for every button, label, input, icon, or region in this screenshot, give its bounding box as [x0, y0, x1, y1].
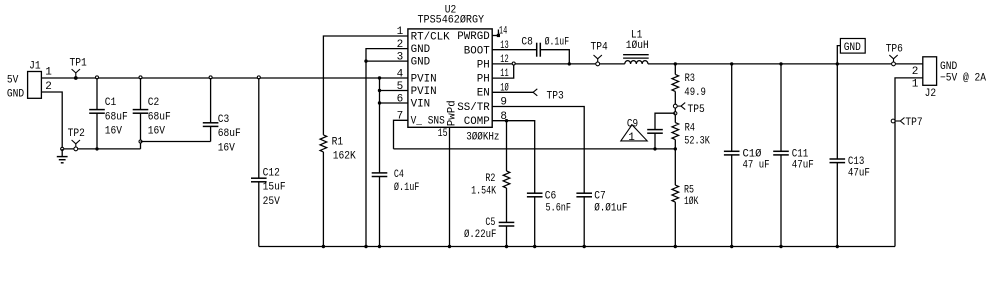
svg-text:5V: 5V [7, 74, 19, 86]
junction COMP-R2 [505, 119, 508, 122]
capacitor C6 [527, 193, 543, 246]
junction R4-VSNS [674, 147, 677, 150]
capacitor C9 [647, 130, 663, 149]
svg-text:PwPd: PwPd [447, 100, 459, 126]
junction ground rail C11 [779, 245, 782, 248]
U2 pin 15 number [438, 128, 448, 140]
junction ground rail C10 [730, 245, 733, 248]
junction C9 tee [674, 112, 677, 115]
label C12 [263, 167, 286, 208]
label C10 [743, 148, 770, 171]
wire PWRGD stub [492, 30, 500, 38]
svg-text:C2: C2 [148, 97, 160, 109]
wire J1 pin1 to rail [41, 77, 97, 79]
junction C1 top [96, 76, 99, 79]
label R4 [684, 122, 710, 147]
svg-text:47uF: 47uF [848, 167, 870, 179]
svg-text:4: 4 [397, 68, 404, 80]
svg-text:47uF: 47uF [792, 160, 814, 172]
svg-text:16V: 16V [105, 126, 123, 138]
wire V_SNS pin7 [394, 120, 408, 149]
svg-text:7: 7 [397, 111, 404, 123]
label C2 [148, 97, 171, 138]
svg-text:TP7: TP7 [905, 117, 922, 129]
svg-text:EN: EN [477, 88, 490, 100]
svg-text:68uF: 68uF [148, 111, 171, 123]
svg-text:GND: GND [411, 57, 431, 69]
wire TP2 ground run [62, 148, 140, 150]
svg-text:52.3K: 52.3K [684, 136, 710, 148]
wire ground rail [259, 246, 895, 248]
svg-text:49.9: 49.9 [684, 87, 706, 99]
wire C9 link [655, 113, 675, 129]
svg-text:2: 2 [397, 39, 404, 51]
wire GND pin2 [366, 49, 408, 247]
test point TP6 [889, 55, 897, 66]
J2 pin 1 number [912, 79, 919, 91]
label TP7 [905, 117, 922, 129]
wire EN pin10 [492, 91, 533, 93]
svg-text:GND: GND [844, 42, 862, 54]
wire C2-C3 bottom [141, 141, 211, 143]
U2 pin numbers left [397, 26, 404, 122]
junction pin6 [378, 101, 381, 104]
junction C2 bottom [139, 140, 142, 143]
wire rail C3-C12 [211, 77, 259, 79]
test point TP2 [72, 140, 80, 151]
capacitor C12 [251, 78, 267, 247]
variant triangle 1 [621, 125, 647, 144]
label R5 [684, 184, 699, 208]
wire PVIN pin5 [380, 90, 408, 92]
net label 5V [7, 74, 19, 86]
svg-text:TP1: TP1 [70, 57, 88, 69]
J1 pin 2 number [45, 81, 52, 93]
capacitor C13 [830, 64, 846, 247]
test point TP4 [594, 55, 602, 66]
resistor R2 [503, 171, 510, 188]
svg-text:5.6nF: 5.6nF [546, 202, 572, 214]
svg-text:VIN: VIN [411, 98, 431, 110]
wire VSNS to R5 [674, 149, 676, 185]
capacitor C4 [372, 173, 388, 247]
junction R3 top [674, 62, 677, 65]
svg-text:PVIN: PVIN [411, 73, 437, 85]
wire PH pin11 bracket [492, 64, 514, 78]
junction C3 top [209, 76, 212, 79]
inductor L1 [623, 55, 649, 64]
label C7 [594, 191, 627, 215]
label C5 [464, 217, 496, 241]
connector J2 [923, 57, 937, 86]
svg-text:J2: J2 [925, 88, 937, 100]
wire rail C2-C3 [141, 77, 211, 79]
op-amp U2 TPS54620RGY body [408, 29, 492, 127]
svg-text:GND: GND [411, 44, 431, 56]
wire BOOT pin13 [492, 49, 537, 51]
svg-text:TPS5462ØRGY: TPS5462ØRGY [418, 15, 485, 27]
wire PH to R3 [674, 64, 676, 75]
capacitor C3 [203, 78, 219, 142]
label TP5 [688, 104, 705, 116]
svg-text:COMP: COMP [464, 116, 490, 128]
junction C9-VSNS [653, 147, 656, 150]
svg-text:C1: C1 [105, 97, 117, 109]
label R2 [471, 173, 496, 198]
wire V_SNS sense run [394, 148, 676, 150]
J1 pin 1 number [45, 67, 52, 79]
label R1 [332, 136, 357, 162]
svg-text:C5: C5 [485, 217, 495, 229]
label C11 [792, 148, 814, 171]
label C3 [218, 114, 241, 155]
junction pin4 rail [378, 76, 381, 79]
label 300KHz [466, 132, 499, 144]
svg-text:GND: GND [940, 61, 958, 73]
wire VIN pin6 [380, 102, 408, 104]
label C4 [394, 169, 420, 194]
svg-text:5: 5 [397, 81, 404, 93]
capacitor C10 [724, 64, 740, 247]
svg-text:3: 3 [397, 51, 404, 63]
svg-text:PH: PH [477, 59, 490, 71]
wire rail C1-C2 [97, 77, 141, 79]
test point TP3 [533, 89, 537, 96]
junction C13 top [836, 62, 839, 65]
wire R4 bottom [674, 140, 676, 149]
wire J2 pin1 [895, 78, 923, 247]
wire COMP pin8 [492, 121, 535, 194]
svg-text:C7: C7 [594, 191, 606, 203]
svg-text:6: 6 [397, 93, 404, 105]
svg-text:RT/CLK: RT/CLK [411, 31, 450, 43]
svg-text:15: 15 [438, 128, 448, 140]
capacitor C2 [133, 78, 149, 149]
label TP2 [68, 128, 85, 140]
wire PH line [492, 63, 625, 65]
junction ground rail GND pins [364, 245, 367, 248]
svg-text:PH: PH [477, 74, 490, 86]
svg-text:TP5: TP5 [688, 104, 705, 116]
junction C8-PH [568, 62, 571, 65]
svg-text:C1Ø: C1Ø [743, 148, 762, 160]
junction pin3 [364, 59, 367, 62]
svg-text:PWRGD: PWRGD [457, 31, 490, 43]
ground [57, 149, 68, 163]
capacitor C1 [89, 78, 105, 149]
svg-text:C12: C12 [263, 167, 280, 179]
junction ground rail R1 [322, 245, 325, 248]
J2 pin 2 number [912, 66, 919, 78]
svg-text:TP4: TP4 [591, 42, 609, 54]
net label GND (J2) [940, 61, 958, 73]
net label GND (J1) [7, 88, 25, 100]
svg-text:2: 2 [45, 81, 52, 93]
U2 pin names left [411, 31, 450, 127]
junction pin5 [378, 89, 381, 92]
label TP4 [591, 42, 609, 54]
wire SS/TR pin9 [492, 107, 584, 194]
junction J1 pin2 corner [61, 147, 64, 150]
test point TP5 [673, 103, 685, 110]
svg-text:16V: 16V [218, 143, 236, 155]
wire GND pin3 [366, 60, 408, 62]
svg-text:2: 2 [912, 66, 919, 78]
capacitor C11 [773, 64, 789, 247]
svg-text:J1: J1 [29, 60, 41, 72]
junction ground rail C6 [533, 245, 536, 248]
junction ground rail C5 [505, 245, 508, 248]
label J1 [29, 60, 41, 72]
svg-text:C4: C4 [394, 169, 404, 181]
junction C2 top [139, 76, 142, 79]
svg-text:Ø.1uF: Ø.1uF [545, 37, 570, 49]
junction pin11-12 [512, 62, 515, 65]
svg-text:15uF: 15uF [263, 182, 286, 194]
svg-text:162K: 162K [333, 151, 356, 163]
junction C11 top [779, 62, 782, 65]
junction C1 bottom [95, 147, 98, 150]
test point TP1 [72, 69, 80, 80]
wire rail C12-IC pin4 [259, 77, 408, 79]
U2 pin names right [457, 31, 490, 128]
svg-text:C6: C6 [545, 191, 557, 203]
svg-text:68uF: 68uF [218, 128, 241, 140]
junction ground rail C13 [836, 245, 839, 248]
junction C10 top [730, 62, 733, 65]
svg-text:1: 1 [912, 79, 919, 91]
connector J1 [28, 72, 42, 99]
svg-text:Ø.1uF: Ø.1uF [394, 182, 420, 194]
svg-text:TP6: TP6 [886, 43, 903, 55]
wire R1 to ground rail [322, 152, 324, 247]
U2 pin numbers right [499, 26, 509, 124]
label TP3 [547, 91, 564, 103]
capacitor C5 [499, 188, 515, 247]
label C8 [521, 36, 569, 48]
label TP6 [886, 43, 903, 55]
svg-text:GND: GND [7, 88, 25, 100]
wire R3 to R4 [674, 91, 676, 122]
resistor R3 [672, 74, 679, 91]
resistor R5 [672, 185, 679, 202]
svg-text:C13: C13 [848, 156, 865, 168]
label TP1 [70, 57, 88, 69]
label C13 [848, 156, 870, 179]
wire PVIN vertical [379, 78, 381, 173]
svg-text:−5V @ 2A: −5V @ 2A [940, 73, 986, 85]
svg-text:R2: R2 [485, 173, 495, 185]
junction ground rail C7 [583, 245, 586, 248]
U2 PwPd pad name [447, 100, 459, 126]
resistor R4 [672, 123, 679, 140]
svg-text:C8: C8 [521, 36, 533, 48]
junction ground rail PwPd [448, 245, 451, 248]
svg-text:TP3: TP3 [547, 91, 564, 103]
svg-text:14: 14 [499, 26, 508, 38]
svg-text:R1: R1 [332, 136, 344, 148]
svg-text:TP2: TP2 [68, 128, 85, 140]
svg-text:1: 1 [628, 132, 635, 144]
wire R2 branch [506, 121, 508, 171]
svg-text:C9: C9 [627, 118, 638, 130]
wire L1 to output [648, 63, 923, 65]
svg-text:Ø.Ø1uF: Ø.Ø1uF [594, 202, 627, 214]
svg-text:R4: R4 [685, 122, 696, 134]
svg-text:1ØK: 1ØK [684, 196, 699, 208]
junction ground rail C4 [378, 245, 381, 248]
wire J1 pin2 [41, 92, 62, 149]
resistor R1 [320, 135, 327, 152]
net label -5V [940, 73, 986, 85]
svg-text:SS/TR: SS/TR [457, 102, 490, 114]
label C6 [545, 191, 571, 215]
svg-text:C3: C3 [218, 114, 230, 126]
svg-text:1.54K: 1.54K [471, 186, 496, 198]
test point TP7 [891, 118, 904, 125]
wire C8 to PH [540, 50, 569, 64]
label C1 [105, 97, 128, 138]
label U2 [445, 4, 457, 16]
svg-text:1ØuH: 1ØuH [626, 40, 649, 52]
label C9 [627, 118, 638, 130]
label J2 [925, 88, 937, 100]
svg-text:25V: 25V [263, 196, 281, 208]
junction C12 top [257, 76, 260, 79]
wire R5 to ground [674, 202, 676, 246]
label L1 [626, 30, 649, 52]
power label GND [837, 39, 865, 64]
svg-text:47 uF: 47 uF [743, 160, 770, 172]
junction ground rail R5 [674, 245, 677, 248]
svg-text:3ØØKHz: 3ØØKHz [466, 132, 499, 144]
label TPS54620RGY [418, 15, 485, 27]
capacitor C8 [537, 43, 541, 57]
svg-text:R5: R5 [684, 184, 694, 196]
svg-text:R3: R3 [685, 73, 695, 85]
svg-text:C11: C11 [792, 148, 809, 160]
svg-text:V_ SNS: V_ SNS [411, 115, 446, 127]
capacitor C7 [576, 193, 592, 246]
svg-text:1: 1 [45, 67, 52, 79]
wire PwPd to ground [449, 127, 451, 246]
svg-text:Ø.22uF: Ø.22uF [464, 229, 496, 241]
label R3 [684, 73, 706, 99]
svg-text:16V: 16V [148, 126, 166, 138]
svg-text:1: 1 [397, 26, 404, 38]
svg-text:BOOT: BOOT [464, 46, 490, 58]
svg-text:68uF: 68uF [105, 111, 128, 123]
wire RT/CLK pin1 [323, 36, 408, 135]
svg-text:PVIN: PVIN [411, 86, 437, 98]
